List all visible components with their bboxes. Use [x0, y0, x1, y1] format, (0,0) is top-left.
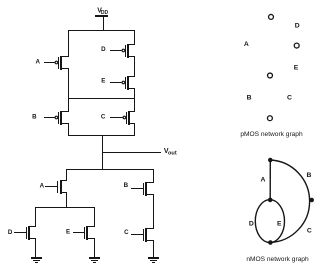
pMOS transistor E — [101, 76, 135, 90]
svg-text:D: D — [8, 229, 13, 236]
VDD label — [97, 8, 108, 16]
svg-text:out: out — [168, 151, 177, 157]
nMOS network graph caption — [246, 256, 309, 263]
wire left rail mid (pMOS A to pMOS B) — [68, 69, 70, 111]
nMOS graph node right — [309, 198, 314, 203]
wire pMOS output rail — [68, 135, 135, 137]
wire rail to nMOS A — [66, 170, 68, 180]
svg-text:E: E — [294, 65, 299, 72]
nMOS graph edges D and E (lens ellipse) — [255, 200, 284, 243]
wire rail to nMOS B — [153, 170, 155, 182]
wire right rail lower (pMOS C to output rail) — [134, 124, 136, 135]
nMOS graph edge label B — [307, 172, 312, 179]
svg-text:D: D — [101, 46, 106, 53]
nMOS transistor B — [124, 182, 154, 196]
pMOS graph label A — [244, 41, 249, 48]
pMOS transistor D — [101, 44, 135, 58]
nMOS graph edge label A — [261, 177, 266, 184]
svg-text:D: D — [295, 22, 300, 29]
svg-text:C: C — [101, 114, 106, 121]
pMOS graph label C — [287, 94, 292, 101]
svg-text:A: A — [40, 182, 45, 189]
pMOS graph label E — [294, 65, 299, 72]
wire D-E tee rail — [35, 207, 95, 209]
nMOS graph edge A (top node to middle node) — [269, 160, 271, 200]
wire left rail lower (pMOS B to output rail) — [68, 124, 70, 135]
svg-text:E: E — [66, 229, 70, 236]
wire tee to nMOS D — [35, 208, 37, 226]
nMOS graph node middle — [268, 198, 273, 203]
svg-text:B: B — [307, 172, 312, 179]
wire right rail (junction to pMOS C) — [134, 99, 136, 111]
svg-text:C: C — [287, 94, 292, 101]
wire nMOS D to ground — [35, 239, 37, 257]
nMOS graph edge label E — [277, 220, 282, 227]
pMOS graph label B — [247, 95, 252, 102]
nMOS graph node top — [268, 158, 273, 163]
pMOS graph node 1 (top) — [269, 14, 274, 19]
wire nMOS C to ground — [153, 241, 155, 257]
nMOS graph edge label C — [307, 228, 312, 235]
svg-text:pMOS network graph: pMOS network graph — [240, 131, 303, 138]
nMOS transistor A — [40, 180, 67, 194]
nMOS transistor E — [66, 226, 95, 240]
svg-text:C: C — [124, 229, 129, 236]
nMOS transistor D — [8, 226, 36, 240]
svg-text:E: E — [277, 220, 282, 227]
wire Vout stem — [102, 136, 104, 169]
wire left rail upper (rail to pMOS A) — [68, 31, 70, 56]
wire junction rail (stage1 to stage2) — [68, 98, 135, 100]
pMOS graph node 4 (bottom) — [267, 116, 272, 121]
pMOS network graph caption — [240, 131, 303, 138]
wire tee to nMOS E — [94, 208, 96, 226]
wire nMOS A to D-E tee — [66, 193, 68, 207]
pMOS graph node 2 (right) — [294, 43, 299, 48]
wire nMOS B to nMOS C — [153, 195, 155, 228]
wire nMOS E to ground — [94, 239, 96, 257]
wire rail pMOS E to junction — [134, 89, 136, 98]
svg-text:nMOS network graph: nMOS network graph — [246, 256, 309, 263]
svg-text:A: A — [261, 177, 266, 184]
nMOS transistor C — [124, 228, 154, 242]
pMOS transistor C — [101, 111, 135, 125]
pMOS transistor A — [35, 56, 69, 70]
Vout label — [164, 148, 177, 157]
pMOS graph label D — [295, 22, 300, 29]
ground GND1 (under nMOS D) — [31, 258, 42, 263]
svg-text:DD: DD — [101, 10, 109, 16]
svg-text:C: C — [307, 228, 312, 235]
wire nMOS top rail — [66, 169, 154, 171]
svg-text:D: D — [249, 221, 254, 228]
pMOS graph node 3 (middle) — [268, 73, 273, 78]
nMOS graph edges B and C (arc through right node) — [270, 160, 309, 243]
wire VDD stem — [103, 17, 105, 30]
nMOS graph node bottom — [268, 240, 273, 245]
svg-text:A: A — [35, 59, 40, 66]
ground GND2 (under nMOS E) — [89, 258, 100, 263]
svg-text:E: E — [101, 78, 105, 85]
wire Vout branch — [103, 152, 161, 154]
ground GND3 (under nMOS C) — [148, 258, 159, 263]
svg-text:A: A — [244, 41, 249, 48]
wire top rail (VDD) — [68, 30, 135, 32]
svg-text:B: B — [247, 95, 252, 102]
pMOS transistor B — [32, 111, 69, 125]
nMOS graph edge label D — [249, 221, 254, 228]
svg-text:B: B — [124, 182, 129, 189]
VDD power bar — [95, 15, 108, 17]
wire right rail upper (rail to pMOS D) — [134, 31, 136, 44]
wire rail pMOS D to pMOS E — [134, 57, 136, 76]
svg-text:B: B — [32, 114, 37, 121]
